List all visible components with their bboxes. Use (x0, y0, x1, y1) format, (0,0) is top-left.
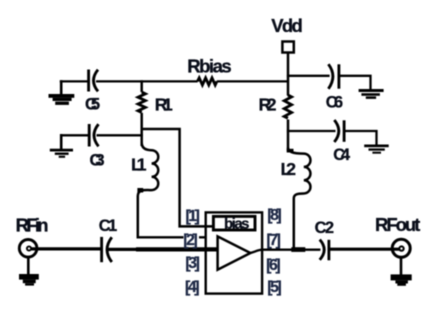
ground (RFout, solid stepped style) (391, 257, 412, 286)
svg-text:C5: C5 (85, 96, 100, 114)
op-amp triangle (218, 236, 251, 269)
wire R2 to C4 (287, 130, 336, 132)
wire C3 to R1 stem (97, 134, 143, 136)
wire C2 to RFout (329, 248, 399, 251)
ground (RFin, solid stepped style) (19, 257, 39, 286)
svg-text:C4: C4 (333, 146, 350, 164)
svg-text:RFin: RFin (16, 215, 49, 236)
wire L1 branch to amplifier input (138, 236, 207, 238)
svg-text:C6: C6 (326, 94, 343, 112)
resistor R1 (138, 80, 173, 146)
svg-text:[6]: [6] (266, 257, 281, 274)
inductor L2 (281, 148, 311, 250)
capacitor C5 (85, 70, 100, 114)
IC U1 package outline (206, 212, 262, 293)
wire Vdd stem to C6 (287, 75, 330, 77)
wire C6 to its ground (339, 76, 371, 90)
wire R1 to pin 1 (over, down, into bias) (142, 129, 214, 226)
wire RFin to C1 (31, 247, 102, 250)
svg-text:C1: C1 (99, 217, 118, 235)
ground (C4, three-bar style) (364, 145, 389, 154)
wire C4 to its ground (344, 131, 376, 145)
capacitor C3 (89, 124, 104, 170)
svg-text:[8]: [8] (267, 207, 282, 224)
wire top rail Rbias to Vdd stem (217, 80, 289, 82)
ground (C3, three-bar style) (50, 134, 73, 158)
RFout port (375, 214, 420, 257)
RFin port (16, 215, 49, 258)
ground (C6, three-bar style) (359, 89, 384, 99)
wire amplifier output to C2 (250, 250, 320, 253)
svg-text:L2: L2 (281, 159, 297, 179)
inductor L1 (131, 143, 158, 239)
capacitor C6 (326, 64, 343, 111)
svg-text:R1: R1 (155, 95, 173, 115)
junction pin 7 output stub (291, 247, 305, 252)
bias block (213, 216, 255, 233)
ground (C5, solid stepped style) (49, 80, 75, 105)
svg-text:[4]: [4] (185, 279, 200, 296)
svg-text:bias: bias (224, 216, 250, 233)
svg-text:[7]: [7] (266, 232, 281, 249)
svg-text:[5]: [5] (267, 279, 282, 296)
svg-text:[2]: [2] (183, 232, 198, 249)
capacitor C2 (315, 219, 335, 260)
wire Vdd stem down through rail to R2 (287, 53, 290, 96)
svg-text:Rbias: Rbias (187, 56, 232, 77)
Vdd terminal (271, 15, 303, 53)
wire C3 ground to C3 (60, 134, 89, 136)
capacitor C1 (99, 217, 118, 262)
svg-text:C2: C2 (315, 219, 335, 237)
svg-text:Vdd: Vdd (271, 15, 303, 36)
wire C1 to amplifier input (109, 248, 139, 251)
resistor R2 (259, 95, 292, 151)
svg-text:L1: L1 (131, 155, 147, 175)
svg-text:C3: C3 (90, 152, 105, 170)
svg-text:[3]: [3] (185, 255, 200, 272)
svg-text:RFout: RFout (375, 214, 420, 235)
wire top rail left of C5 ground to C5 (60, 80, 89, 82)
wire top rail C5 to Rbias (96, 80, 198, 82)
resistor Rbias (187, 56, 232, 85)
capacitor C4 (333, 120, 350, 164)
svg-text:R2: R2 (259, 95, 277, 115)
pin label 2 white backing (184, 232, 200, 246)
svg-text:[1]: [1] (185, 208, 200, 225)
